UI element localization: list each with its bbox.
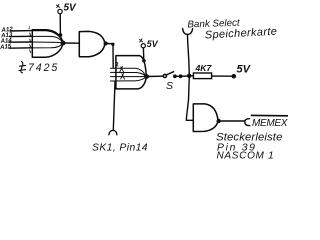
- wire bank-select node down to U3: [186, 40, 193, 120]
- svg-text:MEMEXT: MEMEXT: [252, 118, 288, 129]
- wire U1b output to switch: [147, 75, 163, 77]
- connector SK1 Pin14 (arc): [109, 130, 117, 134]
- net label MEMEXT with overline: [252, 115, 295, 128]
- wire 5V to U1b strobe: [142, 48, 144, 60]
- wire U3 output to connector: [219, 120, 244, 122]
- power terminal +5V (top left): [57, 2, 78, 13]
- wire U1a output to U2: [63, 42, 79, 44]
- junction node dot: [187, 74, 191, 78]
- value label 1/2 7425: [19, 62, 26, 73]
- svg-text:7425: 7425: [28, 62, 59, 74]
- svg-text:5V: 5V: [237, 64, 252, 76]
- svg-text:A15: A15: [0, 43, 12, 51]
- svg-text:NASCOM 1: NASCOM 1: [217, 151, 275, 159]
- svg-text:4K7: 4K7: [195, 63, 213, 73]
- svg-text:1: 1: [28, 25, 31, 30]
- wire 5V to U1a strobe: [59, 14, 61, 35]
- pin ticks U1a: [29, 33, 32, 53]
- 4-input NOR gate U1b (7425): [111, 56, 147, 89]
- junction dot U1a strobe: [59, 33, 63, 37]
- power terminal +5V (middle): [140, 39, 159, 49]
- wire A14: [9, 41, 32, 43]
- 4-input NOR gate U1a (7425): [32, 30, 63, 58]
- bubble/junction U3 output: [217, 119, 221, 123]
- wire U2 output to U1b input: [108, 43, 115, 68]
- junction dot U1b output: [144, 74, 149, 79]
- power terminal 5V (right): [232, 64, 252, 79]
- wire resistor to 5V: [212, 75, 234, 77]
- svg-text:Speicherkarte: Speicherkarte: [205, 26, 278, 42]
- connector MEMEXT (arc): [245, 119, 250, 126]
- wire A13: [10, 35, 33, 37]
- NAND gate U3: [193, 104, 218, 132]
- svg-text:5V: 5V: [64, 2, 78, 13]
- resistor R1 4K7: [189, 73, 211, 79]
- connector Bank Select (fork): [183, 29, 193, 40]
- junction dot U1b strobe: [142, 59, 146, 63]
- wire A15: [9, 47, 32, 49]
- switch S: [163, 72, 189, 79]
- svg-text:SK1, Pin14: SK1, Pin14: [92, 143, 148, 154]
- svg-text:5V: 5V: [147, 39, 159, 49]
- svg-text:S: S: [166, 80, 173, 92]
- junction dot U1a output: [61, 41, 66, 46]
- bubble/junction U2 output: [104, 41, 108, 45]
- wire A12: [10, 30, 32, 32]
- NAND gate U2: [79, 31, 105, 56]
- wire U1b input to SK1: [113, 82, 115, 131]
